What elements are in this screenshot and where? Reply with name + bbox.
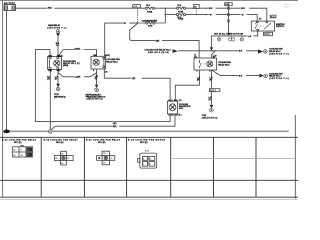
svg-text:(SECTION F-2): (SECTION F-2) bbox=[87, 99, 103, 101]
svg-text:B-22 1: B-22 1 bbox=[210, 90, 217, 92]
svg-text:NO.2 (F): NO.2 (F) bbox=[56, 142, 64, 144]
svg-text:W: W bbox=[242, 14, 244, 16]
svg-text:2(B-R): 2(B-R) bbox=[57, 55, 63, 57]
svg-text:W-R: W-R bbox=[209, 8, 213, 10]
svg-text:(F): (F) bbox=[47, 79, 50, 81]
svg-text:FUSE: FUSE bbox=[178, 19, 184, 21]
svg-text:4(L): 4(L) bbox=[57, 69, 61, 72]
svg-text:L(F): L(F) bbox=[132, 78, 136, 80]
svg-text:L(F): L(F) bbox=[113, 123, 117, 125]
svg-text:(F): (F) bbox=[55, 79, 58, 81]
svg-text:C(B) D(B): C(B) D(B) bbox=[168, 115, 182, 117]
svg-text:B(F): B(F) bbox=[156, 40, 160, 42]
svg-text:NO.1 (F): NO.1 (F) bbox=[140, 142, 148, 144]
svg-text:1(B): 1(B) bbox=[48, 55, 52, 57]
svg-text:B-R: B-R bbox=[239, 75, 243, 77]
svg-text:15 A: 15 A bbox=[177, 4, 182, 7]
svg-text:(F): (F) bbox=[209, 99, 212, 101]
svg-text:JB-02: JB-02 bbox=[284, 7, 290, 9]
svg-text:(SECTION F-2): (SECTION F-2) bbox=[54, 96, 66, 98]
svg-text:AND NO.2 (B-01): AND NO.2 (B-01) bbox=[148, 51, 169, 54]
svg-text:BATTERY: BATTERY bbox=[4, 2, 16, 5]
svg-text:(SECTION F-2): (SECTION F-2) bbox=[202, 117, 218, 119]
svg-text:HOT AT ALL TIMES HOT IN ON: HOT AT ALL TIMES HOT IN ON bbox=[214, 33, 244, 36]
svg-text:(F): (F) bbox=[197, 79, 200, 81]
svg-text:B-05 1: B-05 1 bbox=[264, 34, 271, 36]
svg-text:(FAN): (FAN) bbox=[63, 64, 68, 67]
svg-text:B-04: B-04 bbox=[145, 149, 149, 152]
svg-text:W-R: W-R bbox=[48, 7, 52, 9]
svg-text:RELAY NO.3: RELAY NO.3 bbox=[218, 63, 230, 66]
svg-text:NO.1 (F): NO.1 (F) bbox=[14, 142, 22, 144]
svg-text:COOLING FAN TEST: COOLING FAN TEST bbox=[142, 20, 158, 23]
svg-text:2(GY): 2(GY) bbox=[105, 55, 110, 57]
svg-text:CON: CON bbox=[148, 26, 153, 28]
svg-text:NO.3 (F): NO.3 (F) bbox=[98, 142, 106, 144]
svg-text:W-R: W-R bbox=[241, 8, 245, 10]
svg-text:A(L) B(L-R): A(L) B(L-R) bbox=[168, 99, 182, 102]
svg-text:L-B(F): L-B(F) bbox=[75, 77, 81, 79]
svg-text:(1): (1) bbox=[194, 56, 197, 58]
svg-text:1F: 1F bbox=[27, 155, 29, 157]
svg-text:(SECTION F-1): (SECTION F-1) bbox=[47, 27, 66, 29]
svg-text:15 A: 15 A bbox=[146, 4, 151, 7]
svg-text:W: W bbox=[210, 14, 212, 16]
svg-text:(F): (F) bbox=[209, 79, 212, 81]
svg-text:SWITCH: SWITCH bbox=[276, 26, 284, 28]
svg-text:JB-01 7: JB-01 7 bbox=[284, 4, 292, 6]
svg-text:B-R: B-R bbox=[239, 51, 243, 53]
svg-text:FUSE: FUSE bbox=[178, 11, 184, 13]
svg-text:1E: 1E bbox=[27, 150, 29, 152]
svg-text:(1): (1) bbox=[213, 57, 216, 59]
svg-text:RELAY NO.2: RELAY NO.2 bbox=[106, 60, 118, 63]
svg-text:GY(F): GY(F) bbox=[75, 48, 81, 50]
svg-text:FUSE: FUSE bbox=[147, 11, 153, 13]
svg-text:(F): (F) bbox=[95, 78, 98, 80]
svg-text:(SECTION F-2): (SECTION F-2) bbox=[269, 78, 289, 80]
svg-text:B(F): B(F) bbox=[113, 126, 117, 128]
svg-text:(SECTION F-2): (SECTION F-2) bbox=[269, 53, 289, 55]
svg-text:3(B): 3(B) bbox=[48, 70, 52, 72]
svg-text:1(B): 1(B) bbox=[93, 55, 97, 57]
